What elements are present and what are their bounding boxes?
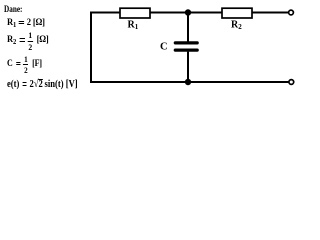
capacitor C top plate [175, 41, 197, 44]
svg-text:C: C [160, 42, 168, 53]
node: top junction [185, 9, 191, 15]
label R1 = 2 [Ohm] [7, 19, 45, 29]
wire: capacitor top lead [187, 13, 189, 42]
wire: bottom rail [91, 81, 289, 83]
label R2 = 1/2 [Ohm] [7, 31, 49, 51]
svg-text:R1: R1 [128, 20, 139, 32]
label Dane: [4, 5, 22, 15]
wire: top rail from left corner to right terminal [91, 12, 289, 14]
terminal: bottom-right open circle [289, 80, 294, 85]
resistor R1 [120, 8, 150, 18]
wire: capacitor bottom lead [187, 52, 189, 82]
node: bottom junction [185, 79, 191, 85]
terminal: top-right open circle [289, 10, 294, 15]
circuit schematic [0, 0, 300, 99]
label C = 1/2 [F] [7, 55, 42, 75]
svg-text:R2: R2 [231, 20, 242, 32]
wire: left vertical branch [90, 12, 92, 84]
resistor R2 [222, 8, 252, 18]
label e(t) = 2*sqrt(2)*sin(t) [V] [7, 79, 78, 90]
capacitor C bottom plate [175, 48, 197, 51]
